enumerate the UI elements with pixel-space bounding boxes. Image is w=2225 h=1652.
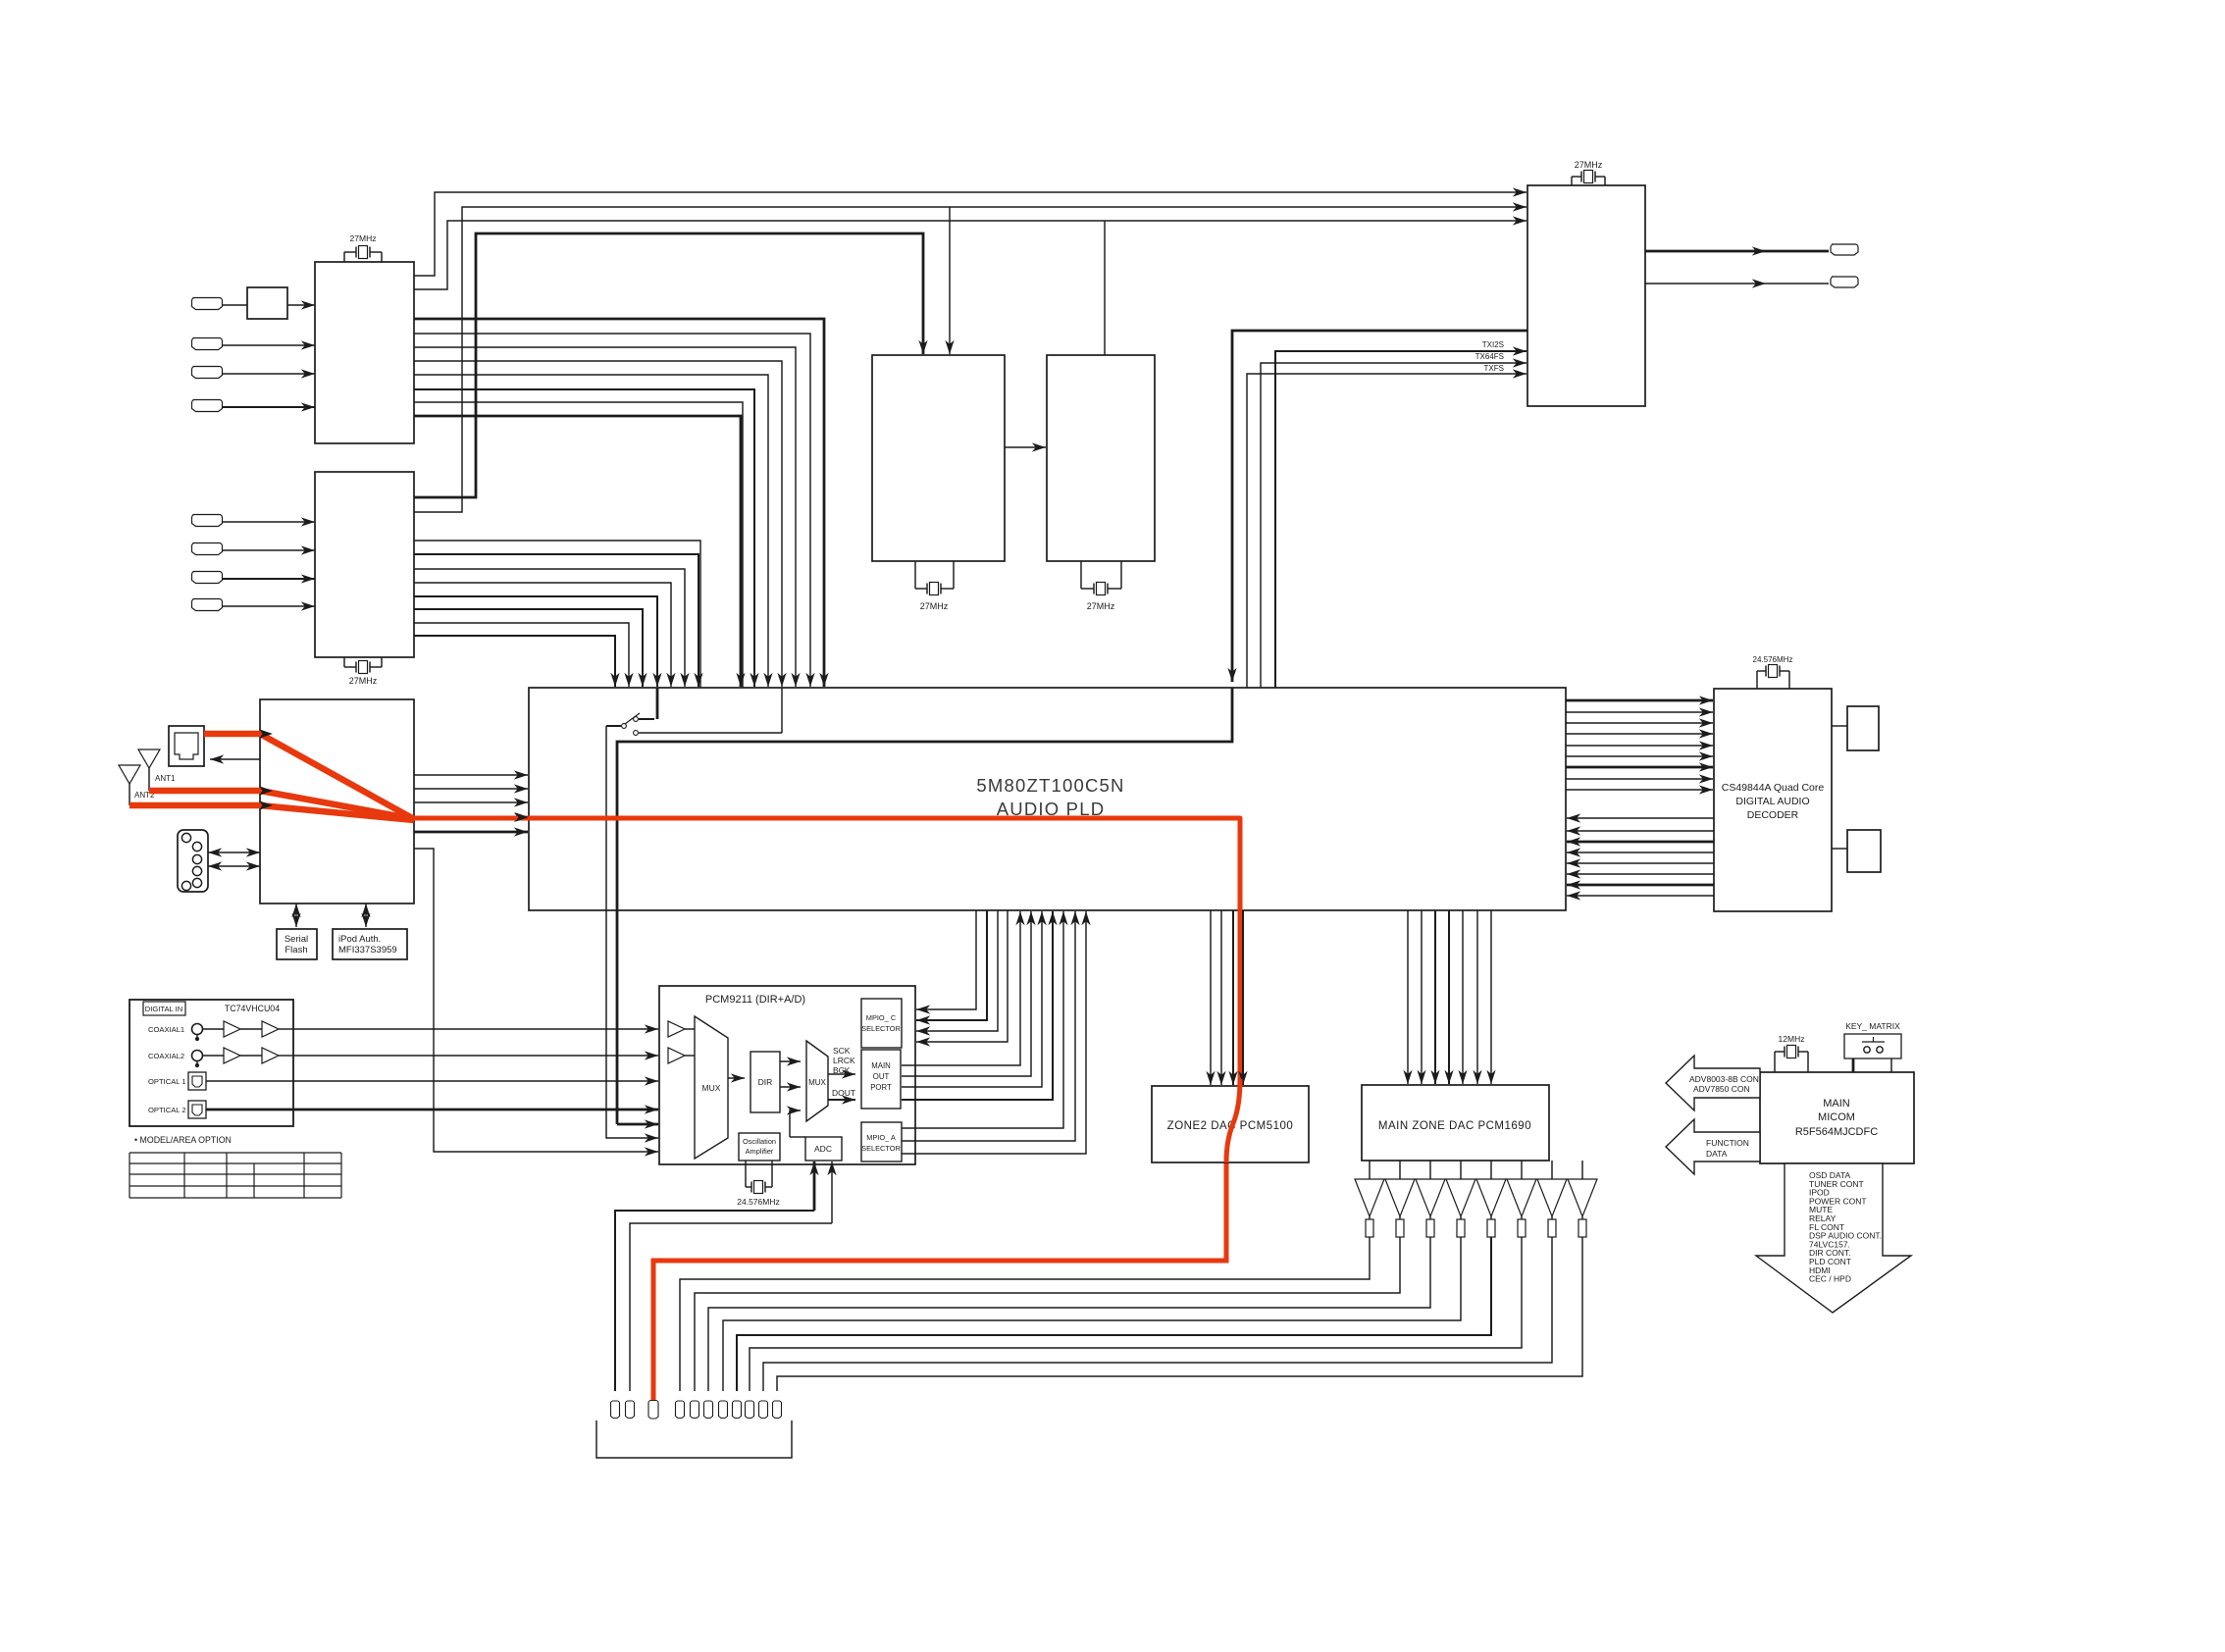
svg-text:COAXIAL1: COAXIAL1 [148, 1025, 184, 1034]
svg-text:Amplifier: Amplifier [746, 1147, 774, 1156]
svg-text:MAIN ZONE DAC PCM1690: MAIN ZONE DAC PCM1690 [1378, 1120, 1531, 1132]
svg-text:12MHz: 12MHz [1779, 1034, 1805, 1044]
svg-text:MUX: MUX [702, 1083, 721, 1093]
svg-text:PORT: PORT [870, 1083, 892, 1092]
svg-text:27MHz: 27MHz [350, 233, 377, 243]
svg-text:MICOM: MICOM [1818, 1111, 1855, 1123]
svg-text:5M80ZT100C5N: 5M80ZT100C5N [976, 775, 1124, 796]
svg-text:TXI2S: TXI2S [1482, 340, 1504, 349]
svg-text:27MHz: 27MHz [1087, 601, 1115, 611]
svg-text:FUNCTION: FUNCTION [1706, 1138, 1749, 1148]
svg-text:OUT: OUT [873, 1072, 890, 1081]
svg-text:MPIO_ A: MPIO_ A [866, 1133, 896, 1142]
svg-text:24.576MHz: 24.576MHz [1753, 655, 1793, 664]
svg-text:27MHz: 27MHz [920, 601, 949, 611]
svg-text:MAIN: MAIN [1823, 1098, 1850, 1110]
svg-text:BCK: BCK [833, 1065, 851, 1075]
svg-text:TXFS: TXFS [1484, 364, 1504, 373]
svg-text:CS49844A Quad Core: CS49844A Quad Core [1722, 782, 1825, 794]
svg-text:R5F564MJCDFC: R5F564MJCDFC [1795, 1126, 1878, 1138]
svg-text:TC74VHCU04: TC74VHCU04 [225, 1004, 280, 1013]
svg-text:OPTICAL 2: OPTICAL 2 [148, 1106, 186, 1114]
svg-text:SCK: SCK [833, 1046, 851, 1056]
svg-text:MPIO_ C: MPIO_ C [866, 1013, 897, 1022]
svg-text:SELECTOR: SELECTOR [861, 1024, 901, 1033]
svg-text:LRCK: LRCK [833, 1056, 855, 1065]
svg-text:DIGITAL IN: DIGITAL IN [145, 1005, 182, 1013]
svg-text:MAIN: MAIN [871, 1061, 891, 1070]
svg-text:DIR: DIR [758, 1077, 773, 1087]
svg-text:MUX: MUX [808, 1078, 826, 1087]
svg-text:COAXIAL2: COAXIAL2 [148, 1052, 184, 1060]
svg-text:DOUT: DOUT [832, 1088, 855, 1098]
svg-text:PCM9211 (DIR+A/D): PCM9211 (DIR+A/D) [705, 994, 805, 1006]
svg-text:24.576MHz: 24.576MHz [737, 1197, 779, 1207]
svg-text:OPTICAL 1: OPTICAL 1 [148, 1077, 186, 1086]
svg-text:• MODEL/AREA OPTION: • MODEL/AREA OPTION [134, 1135, 232, 1145]
svg-text:DATA: DATA [1706, 1149, 1728, 1159]
svg-text:27MHz: 27MHz [1575, 160, 1603, 170]
svg-text:ADC: ADC [814, 1144, 832, 1154]
svg-text:27MHz: 27MHz [349, 676, 378, 686]
svg-text:TX64FS: TX64FS [1475, 352, 1504, 361]
svg-text:Flash: Flash [285, 945, 307, 955]
svg-text:DIGITAL AUDIO: DIGITAL AUDIO [1735, 796, 1809, 807]
svg-text:CEC / HPD: CEC / HPD [1809, 1274, 1851, 1284]
svg-text:SELECTOR: SELECTOR [861, 1144, 901, 1153]
svg-text:KEY_ MATRIX: KEY_ MATRIX [1845, 1021, 1900, 1031]
svg-text:ADV8003-8B CON: ADV8003-8B CON [1689, 1074, 1759, 1084]
svg-text:MFI337S3959: MFI337S3959 [338, 945, 397, 955]
svg-text:iPod Auth.: iPod Auth. [338, 934, 381, 945]
svg-text:Oscillation: Oscillation [743, 1137, 776, 1146]
svg-text:ANT1: ANT1 [155, 774, 176, 783]
svg-text:Serial: Serial [285, 934, 308, 945]
svg-text:ADV7850 CON: ADV7850 CON [1693, 1084, 1750, 1094]
svg-text:DECODER: DECODER [1747, 809, 1799, 821]
